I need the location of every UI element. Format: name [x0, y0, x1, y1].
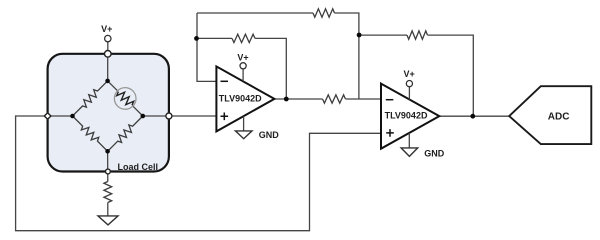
svg-text:ADC: ADC — [548, 111, 570, 122]
load cell left port — [44, 113, 51, 120]
strain gauge circle — [114, 88, 136, 110]
wire bridge bottom node to bottom port and load resistor — [107, 151, 109, 181]
U2 inverting pin marker (-) — [386, 99, 394, 101]
U1 GND stub — [243, 116, 245, 131]
svg-text:GND: GND — [424, 148, 445, 158]
wire bridge right node through right port to U1 non-inverting input — [143, 115, 217, 117]
wire U1 output to U2 inverting input — [274, 98, 322, 100]
resistor between U1 output and U2 inverting input — [323, 95, 346, 103]
V+ supply terminal for load cell — [105, 35, 111, 41]
U1 V+ supply terminal — [240, 63, 246, 69]
junction bridge bottom node — [105, 149, 110, 154]
wire top feedback run with resistor to right vertical — [197, 12, 313, 14]
junction bridge left node — [70, 114, 75, 119]
junction U2 output node — [470, 114, 475, 119]
wire resistor to ground symbol — [107, 203, 109, 216]
resistor U2 feedback — [407, 31, 428, 39]
svg-text:TLV9042D: TLV9042D — [219, 93, 262, 103]
wire strain gauge to bridge right node — [133, 106, 143, 116]
U1 non-inverting pin marker (+) — [221, 113, 229, 121]
svg-text:V+: V+ — [403, 69, 414, 79]
junction bridge right node — [141, 114, 146, 119]
U2 V+ supply stub — [408, 87, 410, 100]
load cell body (Wheatstone bridge module) — [48, 54, 169, 172]
resistor U1 feedback — [232, 34, 255, 42]
junction node A (U1 inverting net) — [194, 36, 199, 41]
bridge resistor bottom-right — [108, 116, 143, 151]
wire top port to bridge top node — [107, 54, 109, 81]
svg-text:Load Cell: Load Cell — [118, 162, 159, 172]
junction U1 output node — [284, 97, 289, 102]
svg-text:TLV9042D: TLV9042D — [385, 111, 428, 121]
bridge resistor bottom-left — [73, 116, 108, 151]
ADC block — [509, 86, 591, 144]
wire U1 inverting input from feedback node — [197, 13, 216, 81]
bridge resistor top-left — [73, 81, 108, 116]
junction bridge top node — [105, 79, 110, 84]
resistor bridge-to-ground (below load cell) — [104, 182, 112, 203]
op-amp U2 triangle — [381, 84, 439, 149]
load cell bottom port — [106, 169, 111, 174]
wire V+ supply to load cell top port — [107, 42, 109, 54]
U1 inverting pin marker (-) — [221, 80, 229, 82]
strain gauge element (variable resistor zigzag) — [117, 92, 134, 106]
junction node B (feedback net) — [357, 33, 362, 38]
U1 ground symbol — [235, 131, 252, 139]
svg-text:V+: V+ — [237, 53, 248, 63]
U2 GND stub — [408, 133, 410, 148]
op-amp U1 triangle — [216, 66, 274, 131]
svg-text:GND: GND — [259, 130, 280, 140]
U1 V+ supply stub — [242, 69, 244, 82]
load cell right port — [166, 113, 172, 119]
wire node B row to U2 feedback resistor — [359, 34, 407, 36]
resistor top feedback (R between U1 inverting node and U2 inverting node) — [313, 9, 335, 17]
svg-text:V+: V+ — [101, 24, 112, 34]
ground symbol below load cell — [98, 216, 118, 225]
wire U1 feedback resistor to U1 output — [255, 38, 286, 99]
wire U1 feedback row from node A — [197, 37, 233, 39]
U2 ground symbol — [401, 148, 418, 157]
U2 V+ supply terminal — [406, 81, 412, 87]
wire U2 feedback resistor down to U2 output node — [428, 35, 474, 116]
wire bridge top node to strain gauge — [108, 81, 118, 91]
wire bridge left node through left port, down and along bottom to U2 non-inverting input — [16, 116, 381, 231]
wire top feedback to node B vertical — [335, 13, 359, 99]
wire U2 output to ADC — [439, 115, 509, 117]
U2 non-inverting pin marker (+) — [386, 129, 394, 137]
load cell top port — [105, 51, 112, 58]
wire resistor to U2 inverting input — [346, 98, 382, 100]
